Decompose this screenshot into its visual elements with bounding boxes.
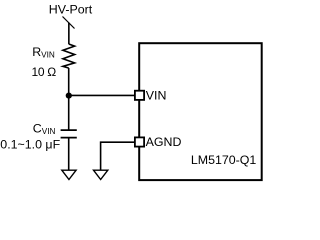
- svg-text:HV-Port: HV-Port: [49, 3, 93, 17]
- svg-text:10 Ω: 10 Ω: [32, 65, 57, 79]
- svg-text:AGND: AGND: [146, 135, 182, 149]
- svg-text:VIN: VIN: [146, 88, 167, 102]
- svg-text:LM5170-Q1: LM5170-Q1: [191, 153, 257, 167]
- svg-text:CVIN: CVIN: [33, 122, 56, 136]
- svg-text:0.1~1.0 μF: 0.1~1.0 μF: [0, 137, 60, 151]
- svg-text:RVIN: RVIN: [32, 45, 55, 59]
